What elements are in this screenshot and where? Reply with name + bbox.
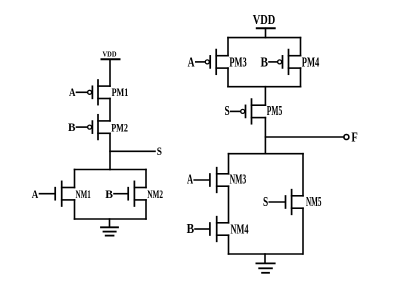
svg-text:B: B (68, 120, 76, 134)
svg-text:A: A (188, 54, 195, 69)
transistor PM2 (PMOS) (88, 115, 110, 140)
svg-text:VDD: VDD (103, 50, 118, 59)
svg-text:VDD: VDD (253, 13, 276, 28)
wire PM1 source to PM2 drain (109, 99, 111, 121)
wire VDD bar to top rail (265, 28, 267, 37)
power VDD (left circuit) (102, 50, 120, 60)
wire PM5 source down to NMOS network (264, 118, 266, 154)
node F terminal circle (344, 135, 349, 140)
transistor PM4 (PMOS) (278, 50, 301, 75)
wire left rail to NM1 drain (74, 170, 76, 188)
ground (right circuit) (256, 254, 274, 273)
wire S to PM5 gate (231, 110, 241, 112)
wire B to PM4 gate (269, 61, 278, 63)
svg-text:NM1: NM1 (76, 187, 91, 201)
svg-text:PM3: PM3 (229, 55, 247, 70)
svg-text:PM4: PM4 (302, 55, 320, 70)
transistor NM3 (NMOS) (210, 168, 229, 193)
wire right rail to PM4 drain (300, 38, 302, 56)
svg-text:B: B (187, 221, 195, 236)
wire NM4 source to bottom rail (228, 235, 230, 254)
transistor PM5 (PMOS) (241, 99, 266, 124)
wire left rail to NM3 drain (228, 154, 230, 174)
wire bottom rail of NM1/NM2 pair (75, 218, 147, 220)
wire output F (265, 136, 344, 138)
wire NM2 source to bottom rail (145, 200, 147, 219)
transistor PM1 (PMOS) (88, 80, 110, 105)
wire left rail to PM3 drain (227, 38, 229, 56)
wire A to PM1 gate (77, 91, 88, 93)
wire A to NM1 gate (40, 193, 55, 195)
wire NM3 source to NM4 drain (228, 186, 230, 223)
wire PM3 source to mid rail (227, 68, 229, 87)
wire PM4 source to mid rail (300, 68, 302, 87)
svg-text:A: A (69, 85, 76, 99)
ground (left circuit) (101, 219, 118, 236)
wire mid rail PM3/PM4 sources (228, 86, 301, 88)
svg-text:NM5: NM5 (306, 194, 322, 209)
svg-text:PM5: PM5 (267, 103, 283, 118)
wire mid rail to PM5 drain (264, 87, 266, 106)
wire VDD bar to PM1 drain (109, 59, 111, 86)
power VDD (right circuit) (253, 13, 276, 28)
wire output S (110, 150, 155, 152)
wire right rail to NM5 drain (302, 154, 304, 196)
wire S to NM5 gate (269, 201, 284, 203)
wire A to PM3 gate (196, 61, 205, 63)
wire top rail of NMOS network (229, 153, 304, 155)
wire B to PM2 gate (77, 126, 88, 128)
wire B to NM2 gate (114, 193, 127, 195)
transistor PM3 (PMOS) (205, 50, 228, 75)
wire top rail of NM1/NM2 parallel pair (75, 169, 147, 171)
svg-text:B: B (105, 187, 113, 201)
svg-text:S: S (157, 144, 162, 158)
transistor NM1 (NMOS) (55, 181, 74, 206)
transistor NM2 (NMOS) (128, 181, 146, 206)
svg-text:F: F (351, 129, 357, 144)
svg-text:B: B (261, 54, 269, 69)
svg-text:A: A (187, 171, 193, 186)
wire A to NM3 gate (194, 179, 209, 181)
wire top rail PM3/PM4 (228, 37, 301, 39)
wire NM5 source to bottom rail (302, 208, 304, 254)
svg-text:PM2: PM2 (111, 120, 128, 134)
wire NM1 source to bottom rail (74, 200, 76, 219)
svg-text:NM3: NM3 (230, 171, 247, 186)
svg-text:PM1: PM1 (112, 85, 129, 99)
wire B to NM4 gate (195, 228, 209, 230)
wire PM2 source down to NMOS network (109, 133, 111, 169)
svg-text:S: S (225, 103, 230, 118)
svg-text:NM4: NM4 (231, 221, 249, 236)
transistor NM5 (NMOS) (286, 190, 304, 215)
wire bottom rail of NMOS network (229, 253, 303, 255)
transistor NM4 (NMOS) (210, 217, 229, 242)
wire right rail to NM2 drain (145, 170, 147, 188)
svg-text:S: S (263, 194, 268, 209)
svg-text:A: A (32, 187, 39, 201)
svg-text:NM2: NM2 (147, 187, 163, 201)
